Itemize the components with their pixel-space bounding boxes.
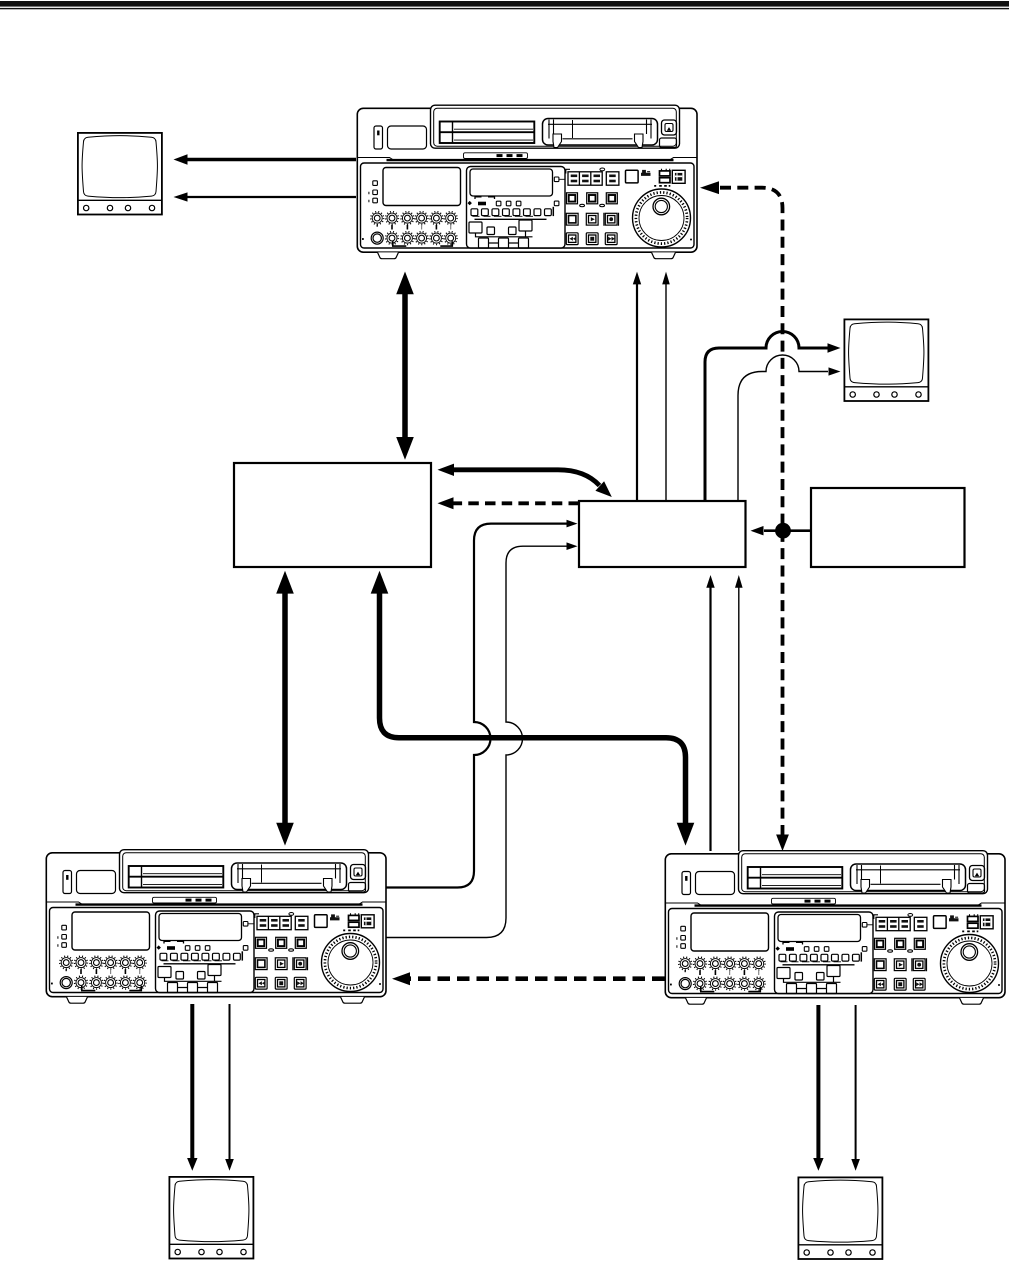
- monitor M4 (bottom right): [798, 1177, 882, 1259]
- page header rule thick: [0, 1, 1009, 7]
- wire W4: B1 to U2 bidirectional (thick vertical): [282, 590, 288, 826]
- wire W8: U2 out to B2 upper (medium, hops W5): [387, 524, 568, 888]
- wire W11: B2 up to U1 (thin): [665, 283, 667, 501]
- wire W18: dashed U3 to U2 (bottom): [406, 976, 665, 981]
- wire W20: U2 to M3 (thin): [229, 1004, 231, 1159]
- wire W9: U2 out to B2 lower (thin, hops W5): [387, 546, 568, 937]
- wire W10: B2 up to U1 (medium): [636, 283, 638, 501]
- wire W21: U3 to M4 (thick): [816, 1005, 820, 1159]
- wire W19: U2 to M3 (thick): [190, 1004, 194, 1159]
- wire W5: B1 to U3 (thick, down right with corners): [380, 590, 686, 826]
- wire W14: U3 up to B2 (medium): [709, 587, 711, 851]
- wire W1: U1 video out to M1 (thick): [186, 158, 356, 162]
- monitor M2 (right): [844, 319, 928, 401]
- wire W22: U3 to M4 (thin): [855, 1005, 857, 1159]
- monitor M3 (bottom left): [169, 1177, 253, 1259]
- wire W2: U1 audio out to M1 (thin): [186, 196, 356, 198]
- monitor M1 (top left): [78, 133, 162, 215]
- box B1 (edit controller, left): [234, 463, 431, 567]
- wire W7: B2 to B1 (dashed): [451, 501, 579, 505]
- VTR U3 (player, bottom right): [665, 851, 1005, 1005]
- wire W3: U1 to B1 bidirectional (thick vertical): [402, 291, 408, 440]
- VTR U2 (player, bottom left): [46, 850, 386, 1004]
- junction node J1: [775, 523, 791, 539]
- VTR U1 (editing recorder, top): [357, 105, 697, 259]
- box B2 (switcher, center): [579, 501, 746, 567]
- wire W13: B2 to M2 (thin, hops dashed riser): [738, 355, 828, 501]
- wire W15: U3 up to B2 (thin): [738, 587, 740, 851]
- wire W6: B2 to B1 (thick curved, double head): [452, 470, 600, 486]
- page header rule thin: [0, 8, 1009, 9]
- wire W17: dashed remote loop U1 right, down to U3: [720, 188, 783, 836]
- box B3 (sync generator, right): [811, 488, 965, 567]
- wire W12: B2 to M2 (medium, hops dashed riser): [705, 332, 828, 502]
- wire W16: B3 to B2 with junction on dashed riser: [764, 529, 811, 532]
